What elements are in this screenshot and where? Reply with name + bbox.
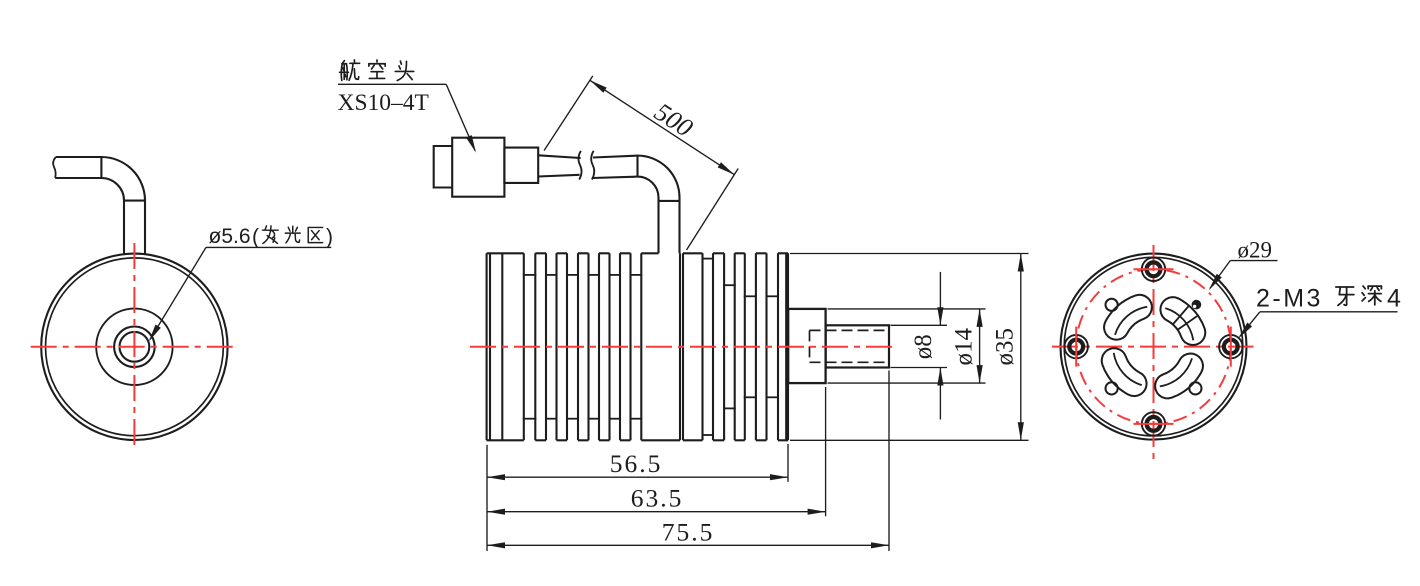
- small hole upper-left: [1106, 299, 1118, 311]
- heatsink right end cap: [785, 253, 787, 440]
- svg-text:ø5.6: ø5.6: [209, 225, 251, 248]
- label glyph ya: [1336, 287, 1354, 305]
- ext lines ø14: [828, 308, 986, 310]
- dimension 56.5 line: [487, 476, 788, 478]
- vent slot upper-left: [1104, 295, 1152, 340]
- vent slot lower-left: [1102, 348, 1147, 396]
- ext line at body left: [486, 445, 488, 551]
- svg-text:2-M3: 2-M3: [1256, 285, 1323, 313]
- rear view horizontal centerline: [1052, 346, 1254, 348]
- red tick top hole: [1134, 268, 1174, 270]
- red tick left hole: [1075, 327, 1077, 367]
- svg-text:75.5: 75.5: [662, 518, 715, 547]
- connector body: [452, 138, 504, 197]
- label glyph guang: [285, 226, 300, 243]
- red tick right hole: [1230, 327, 1232, 367]
- svg-text:63.5: 63.5: [631, 484, 684, 513]
- svg-text:(: (: [252, 226, 259, 249]
- dimension 500 extension line b: [687, 169, 739, 251]
- vent slot upper-right detail lines: [1172, 306, 1188, 325]
- dimension 500 line: [590, 80, 735, 174]
- middle view centerline: [470, 346, 896, 348]
- screw hole bottom: [1142, 412, 1165, 435]
- vent slot upper-right: [1160, 297, 1205, 345]
- small hole lower-right: [1189, 382, 1201, 394]
- left view horizontal centerline: [31, 346, 238, 348]
- vent slot lower-right: [1155, 354, 1203, 399]
- screw hole right: [1219, 335, 1242, 358]
- ext lines ø35: [790, 253, 1029, 255]
- ext line at shaft end: [888, 371, 890, 552]
- heatsink right fins: [682, 253, 684, 440]
- heatsink cable boss: [640, 253, 642, 440]
- svg-text:4: 4: [1387, 285, 1401, 313]
- left view emitter ring outer: [114, 327, 155, 368]
- rear view bolt circle: [1076, 269, 1231, 424]
- mount flange: [788, 309, 825, 383]
- connector small end cap: [434, 146, 453, 188]
- left view vertical centerline: [133, 243, 135, 450]
- cable break marks: [578, 151, 581, 180]
- dimension ø8 line: [939, 272, 941, 325]
- thread hidden lines: [810, 329, 890, 331]
- cable segment A: [538, 155, 580, 158]
- rear view vertical centerline: [1153, 245, 1155, 459]
- connector ferrule: [504, 148, 538, 183]
- svg-text:): ): [326, 226, 333, 249]
- rear view outer circle: [1061, 254, 1247, 440]
- left view emitter ring inner: [119, 332, 149, 362]
- dimension ø35 line: [1020, 254, 1022, 441]
- cable elbow to heatsink: [638, 156, 680, 254]
- connector label glyph hang: [340, 60, 360, 80]
- svg-text:ø8: ø8: [910, 334, 937, 359]
- screw hole left: [1065, 335, 1088, 358]
- red tick bottom hole: [1134, 423, 1174, 425]
- dimension 75.5 line: [487, 544, 889, 546]
- dimension 63.5 line: [487, 511, 826, 513]
- svg-text:ø29: ø29: [1238, 238, 1273, 263]
- ext lines ø8: [891, 324, 948, 326]
- label ø29 leader: [1230, 260, 1277, 262]
- label glyph fa: [262, 226, 278, 244]
- svg-text:56.5: 56.5: [610, 449, 663, 478]
- label 2-M3 leader: [1260, 311, 1398, 313]
- left view lens housing circle: [96, 309, 172, 385]
- svg-text:ø14: ø14: [951, 328, 978, 366]
- cable segment B: [593, 156, 638, 158]
- screw hole top: [1142, 258, 1165, 281]
- heatsink left fins: [534, 253, 536, 440]
- label leader for emitting area: [206, 246, 331, 248]
- left view outer circle inner line: [45, 258, 223, 436]
- small hole lower-left: [1106, 382, 1118, 394]
- pin dot upper-right: [1192, 300, 1202, 310]
- connector label glyph kong: [369, 60, 385, 78]
- connector label glyph tou: [395, 61, 413, 80]
- svg-text:XS10–4T: XS10–4T: [338, 90, 429, 116]
- label glyph shen: [1362, 286, 1381, 305]
- connector label leader: [338, 83, 446, 85]
- heatsink left end cap: [486, 253, 488, 440]
- svg-text:ø35: ø35: [992, 328, 1019, 366]
- dimension ø14 line: [979, 309, 981, 383]
- ext line at flange right: [825, 387, 827, 516]
- left view cable elbow: [56, 157, 145, 254]
- threaded shaft: [826, 325, 889, 367]
- rear view outer circle inner line: [1064, 257, 1243, 436]
- label glyph qu: [308, 227, 322, 242]
- dimension 500 extension line a: [544, 76, 593, 151]
- ext line at body right: [787, 444, 789, 482]
- left view outer circle: [41, 254, 227, 440]
